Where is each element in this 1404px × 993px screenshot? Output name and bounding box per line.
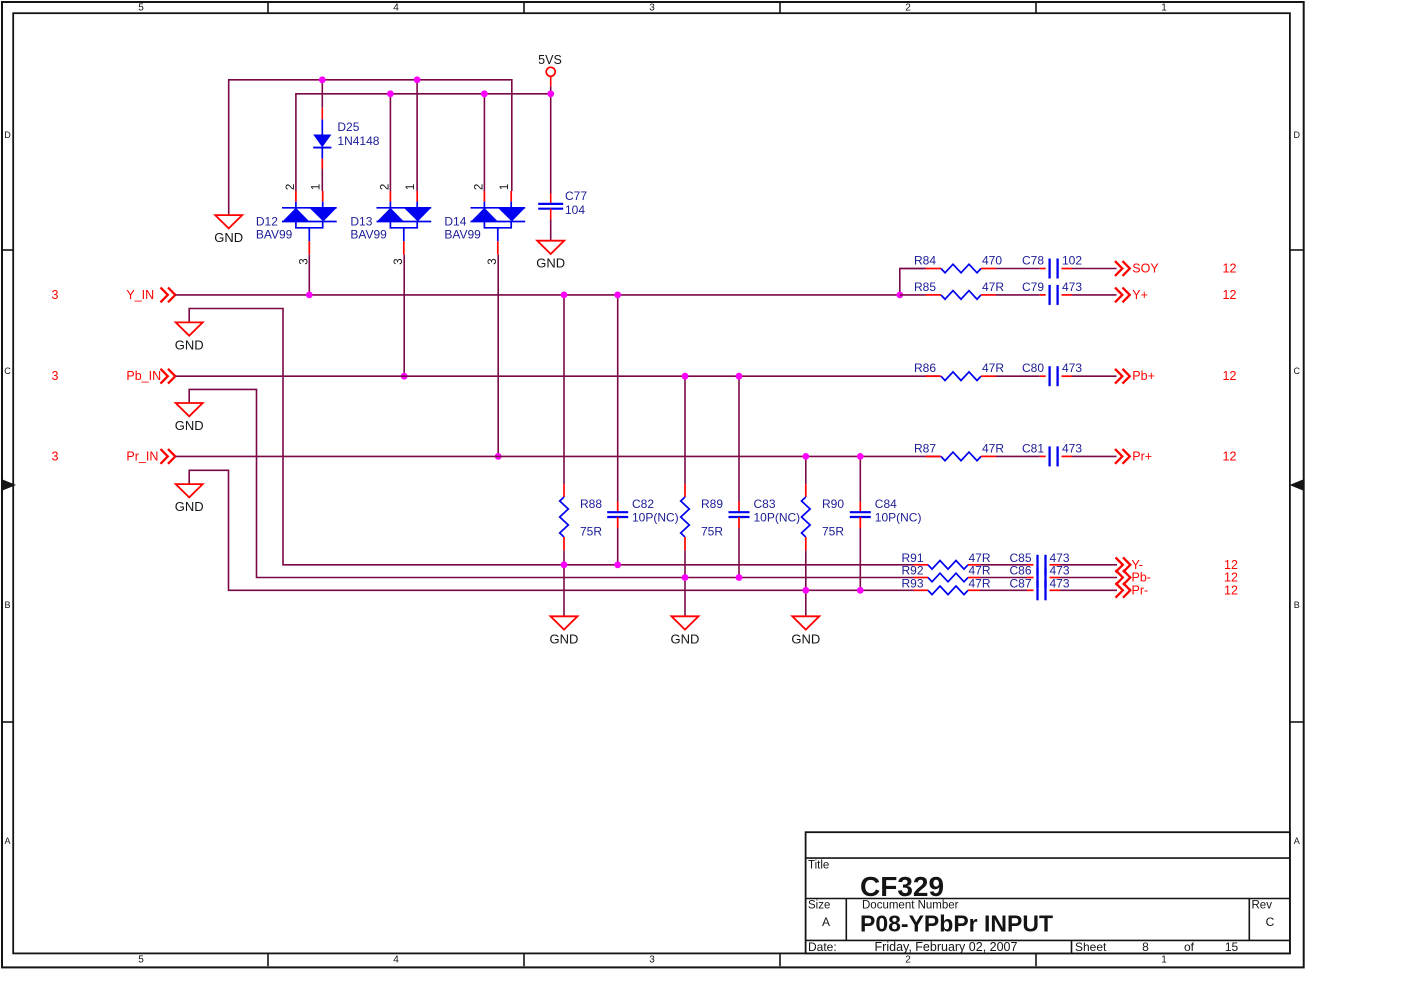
svg-text:Pr_IN: Pr_IN [126,449,158,463]
svg-text:R85: R85 [914,280,936,294]
wire C80 to port Pb+ [1062,375,1117,377]
label R92 value [969,564,991,578]
ground GND1 top-left [214,215,243,245]
wire Pb to C83 [738,376,740,512]
label D12 BAV99 [256,215,293,242]
svg-text:4: 4 [393,955,399,966]
svg-text:75R: 75R [701,525,723,539]
wire net Y [176,294,900,296]
wire Pr- row lead-in [914,589,929,591]
label R87 value [982,441,1004,455]
wire Y- row lead-in [914,564,929,566]
label C78 value [1062,254,1082,268]
resistor R88 75R [560,497,569,537]
ground GND6 [550,616,579,646]
resistor R84 470 [941,264,981,273]
label R92 [902,564,924,578]
svg-text:BAV99: BAV99 [256,227,293,241]
svg-text:5VS: 5VS [538,53,562,67]
svg-text:3: 3 [52,449,59,463]
junction Y- / C82 [614,561,621,568]
label R84 [914,254,936,268]
svg-text:R86: R86 [914,361,936,375]
capacitor C81 473 [1050,446,1058,466]
resistor R87 47R [941,452,981,461]
svg-text:C84: C84 [875,497,897,511]
junction GND rail / D25 [319,76,326,83]
wire C87 to port Pr- [1050,589,1118,591]
capacitor C78 102 [1050,259,1058,279]
title block [806,832,1290,954]
power symbol 5VS [538,53,562,86]
svg-text:4: 4 [393,3,399,14]
wire C77 to ground [550,220,552,241]
junction Y / D12 pin3 [306,292,313,299]
label R85 [914,280,936,294]
svg-text:3: 3 [649,3,655,14]
label R87 [914,441,936,455]
port Pr+ [1115,449,1152,464]
capacitor C82 10P [607,512,628,517]
port SOY [1115,261,1159,276]
capacitor C83 10P [729,512,750,517]
xref 12 for Y+ [1223,288,1237,302]
wire C81 to port Pr+ [1062,455,1117,457]
svg-text:47R: 47R [982,280,1004,294]
wire D25 top drop [321,80,323,120]
xref 12 for Y- [1224,558,1238,572]
svg-text:47R: 47R [982,361,1004,375]
svg-text:Pr+: Pr+ [1132,449,1152,463]
svg-text:473: 473 [1062,361,1082,375]
svg-text:Date:: Date: [808,940,837,954]
wire D25 to D12 pin1 [321,169,323,191]
svg-text:CF329: CF329 [860,871,944,902]
xref 3 for Y_IN [52,288,59,302]
junction 5VS rail / D13 pin2 [387,90,394,97]
xref 12 for Pr- [1224,583,1238,597]
label R93 value [969,577,991,591]
label R84 value [982,254,1002,268]
svg-text:2: 2 [285,184,297,190]
svg-text:3: 3 [649,955,655,966]
svg-text:C: C [1266,915,1275,929]
label C82 10P(NC) [632,497,679,525]
svg-text:R93: R93 [902,577,924,591]
port Y- [1116,557,1143,572]
capacitor C77 [538,194,563,220]
ground GND3 under Y_IN [175,322,204,352]
svg-text:10P(NC): 10P(NC) [754,511,801,525]
port Pb+ [1115,369,1155,384]
wire C79 to port Y+ [1062,294,1117,296]
label R93 [902,577,924,591]
svg-text:47R: 47R [982,441,1004,455]
svg-text:Pb_IN: Pb_IN [126,369,161,383]
label C77 104 [565,189,587,217]
wire Pb to R89 [684,376,686,497]
label C79 value [1062,280,1082,294]
svg-text:C79: C79 [1022,280,1044,294]
svg-text:47R: 47R [969,577,991,591]
label D25 1N4148 [337,120,379,148]
svg-text:12: 12 [1224,583,1238,597]
label D13 BAV99 [350,215,387,242]
label C85 [1010,551,1032,565]
label R91 value [969,551,991,565]
wire C78 to port SOY [1062,268,1117,270]
junction GND rail / D13 pin1 [414,76,421,83]
svg-text:GND: GND [550,631,579,646]
svg-text:1: 1 [405,184,417,190]
ground GND4 under Pb_IN [175,403,204,433]
wire 5VS rail [296,94,551,191]
label R86 value [982,361,1004,375]
dual diode D13 BAV99 [377,191,432,255]
svg-text:Y_IN: Y_IN [126,288,154,302]
svg-text:10P(NC): 10P(NC) [875,511,922,525]
wire Pb+ row lead [926,375,942,377]
ground GND8 [791,616,820,646]
xref 12 for Pb- [1224,571,1238,585]
junction Pr- / R90 [802,587,809,594]
svg-text:3: 3 [393,258,405,264]
svg-text:470: 470 [982,254,1002,268]
svg-text:1: 1 [1161,3,1167,14]
resistor R91 47R [928,561,968,570]
svg-text:GND: GND [175,418,204,433]
wire D12 pin3 to Y [308,255,310,295]
resistor R90 75R [802,497,811,537]
port Y_IN [126,288,175,303]
junction Pb / R89 [682,373,689,380]
svg-text:12: 12 [1223,369,1237,383]
dual diode D14 BAV99 [471,191,526,255]
port Pb_IN [126,369,175,384]
svg-text:SOY: SOY [1132,262,1159,276]
svg-text:C77: C77 [565,189,587,203]
wire R87 to C81 [981,455,1046,457]
svg-text:A: A [822,915,830,929]
svg-text:Title: Title [808,860,829,872]
svg-text:473: 473 [1062,280,1082,294]
junction Pr- / C84 [857,587,864,594]
label R88 75R [580,497,602,539]
wire R92 to C86 [968,577,1034,579]
port Pr_IN [126,449,175,464]
svg-text:75R: 75R [822,525,844,539]
wire Y to C82 [617,295,619,512]
wire Pr- return from ground [189,470,913,590]
svg-text:A: A [1294,836,1300,846]
svg-text:of: of [1184,940,1195,954]
wire Pb- row lead-in [914,577,929,579]
junction Pb / D13 pin3 [401,373,408,380]
junction Pr / C84 [857,453,864,460]
svg-text:C: C [1294,366,1301,376]
dual diode D12 BAV99 [282,191,337,255]
svg-text:473: 473 [1062,441,1082,455]
svg-text:D: D [1294,130,1301,140]
port Pr- [1116,583,1149,598]
svg-text:BAV99: BAV99 [444,227,481,241]
svg-text:GND: GND [175,337,204,352]
capacitor C85 473 [1038,555,1046,575]
label C87 value [1050,577,1070,591]
svg-text:2: 2 [905,955,911,966]
svg-text:B: B [4,600,10,610]
label C86 [1010,564,1032,578]
label C86 value [1050,564,1070,578]
label R91 [902,551,924,565]
junction Pr / R90 [802,453,809,460]
xref 3 for Pr_IN [52,449,59,463]
svg-text:3: 3 [487,258,499,264]
wire R90 to Pr- row [805,537,807,616]
svg-text:GND: GND [536,256,565,271]
svg-text:R89: R89 [701,497,723,511]
wire Y to R88 [563,295,565,497]
wire D13 pin2 drop [389,94,391,191]
wire R86 to C80 [981,375,1046,377]
svg-text:C78: C78 [1022,254,1044,268]
svg-text:10P(NC): 10P(NC) [632,511,679,525]
wire Pr to R90 [805,456,807,497]
svg-text:75R: 75R [580,525,602,539]
svg-text:2: 2 [379,184,391,190]
wire Pb- return from ground [189,389,913,577]
diode D25 [313,119,331,169]
capacitor C84 10P [850,512,871,517]
wire C84 to Pr- row [859,517,861,590]
wire GND clamp rail [229,80,512,215]
wire D14 pin2 drop [483,94,485,191]
label R86 [914,361,936,375]
wire D13 pin3 to Pb [403,255,405,377]
svg-text:P08-YPbPr INPUT: P08-YPbPr INPUT [860,911,1053,937]
svg-text:D: D [4,130,11,140]
svg-text:C81: C81 [1022,441,1044,455]
wire Y to R84 branch [900,269,926,295]
junction 5VS rail / stem [547,90,554,97]
resistor R93 47R [928,586,968,595]
wire R88 to Y- row [563,537,565,616]
wire Y+ row lead [900,294,941,296]
svg-text:Rev: Rev [1252,900,1273,912]
svg-text:1N4148: 1N4148 [337,134,379,148]
junction 5VS rail / D14 pin2 [481,90,488,97]
wire Pr to C84 [859,456,861,512]
label C81 value [1062,441,1082,455]
svg-text:104: 104 [565,203,585,217]
svg-text:5: 5 [138,3,144,14]
wire R93 to C87 [968,589,1034,591]
svg-text:3: 3 [52,288,59,302]
junction Pb / C83 [736,373,743,380]
svg-text:473: 473 [1050,577,1070,591]
svg-text:Pb+: Pb+ [1132,369,1155,383]
xref 12 for SOY [1223,262,1237,276]
svg-text:15: 15 [1225,940,1239,954]
svg-text:12: 12 [1223,288,1237,302]
svg-text:Sheet: Sheet [1075,940,1107,954]
label C80 [1022,361,1044,375]
pin numbers D13 [379,184,416,265]
junction Y / R88 [561,292,568,299]
svg-text:Size: Size [808,900,830,912]
svg-text:D25: D25 [337,120,359,134]
wire R89 to Pb- row [684,537,686,616]
wire net Pb [176,375,940,377]
wire 5VS stem [550,86,552,193]
svg-text:8: 8 [1142,940,1149,954]
svg-text:1: 1 [310,184,322,190]
label R90 75R [822,497,844,539]
svg-text:C80: C80 [1022,361,1044,375]
svg-text:Pr-: Pr- [1132,583,1149,597]
junction Y- / R88 [561,561,568,568]
pin numbers D14 [473,184,510,265]
svg-text:102: 102 [1062,254,1082,268]
ground GND2 under C77 [536,241,565,271]
xref 3 for Pb_IN [52,369,59,383]
label D14 BAV99 [444,215,481,242]
junction Pb- / C83 [736,574,743,581]
label C87 [1010,577,1032,591]
xref 12 for Pr+ [1223,449,1237,463]
svg-text:3: 3 [52,369,59,383]
svg-text:Friday, February 02, 2007: Friday, February 02, 2007 [875,940,1018,954]
label C83 10P(NC) [754,497,801,525]
svg-text:A: A [4,836,10,846]
wire C82 to Y- row [617,517,619,565]
svg-text:C82: C82 [632,497,654,511]
resistor R89 75R [681,497,690,537]
svg-text:1: 1 [499,184,511,190]
svg-text:2: 2 [905,3,911,14]
wire R85 to C79 [981,294,1046,296]
wire D13 pin1 drop [416,80,418,191]
wire C86 to port Pb- [1050,577,1118,579]
wire Y- return from ground [189,309,913,565]
svg-text:2: 2 [473,184,485,190]
wire net Pr [176,455,940,457]
wire SOY row lead [900,268,941,270]
wire R91 to C85 [968,564,1034,566]
label C78 [1022,254,1044,268]
resistor R92 47R [928,573,968,582]
svg-text:GND: GND [671,631,700,646]
label R85 value [982,280,1004,294]
svg-text:C87: C87 [1010,577,1032,591]
label C84 10P(NC) [875,497,922,525]
port Pb- [1116,570,1151,585]
svg-text:R88: R88 [580,497,602,511]
junction Pb- / R89 [682,574,689,581]
svg-text:C83: C83 [754,497,776,511]
wire D14 pin3 to Pr [497,255,499,457]
svg-text:R90: R90 [822,497,844,511]
xref 12 for Pb+ [1223,369,1237,383]
label C81 [1022,441,1044,455]
svg-text:GND: GND [175,499,204,514]
capacitor C80 473 [1050,366,1058,386]
label R89 75R [701,497,723,539]
capacitor C86 473 [1038,568,1046,588]
capacitor C87 473 [1038,580,1046,600]
svg-text:5: 5 [138,955,144,966]
svg-text:C: C [4,366,11,376]
port Y+ [1115,288,1148,303]
svg-text:R84: R84 [914,254,936,268]
pin numbers D12 [285,184,322,265]
label C85 value [1050,551,1070,565]
wire R84 to C78 [981,268,1046,270]
ground GND5 under Pr_IN [175,484,204,514]
svg-text:BAV99: BAV99 [350,227,387,241]
svg-text:R87: R87 [914,441,936,455]
junction Y / R84 branch [896,292,903,299]
svg-text:GND: GND [791,631,820,646]
svg-text:12: 12 [1223,262,1237,276]
ground GND7 [671,616,700,646]
wire C83 to Pb- row [738,517,740,578]
junction Pr / D14 pin3 [495,453,502,460]
svg-text:Y+: Y+ [1132,288,1148,302]
wire Pr+ row lead [926,455,942,457]
junction Y / C82 [614,292,621,299]
svg-text:B: B [1294,600,1300,610]
resistor R85 47R [941,291,981,300]
svg-text:12: 12 [1223,449,1237,463]
label C80 value [1062,361,1082,375]
capacitor C79 473 [1050,285,1058,305]
svg-text:GND: GND [214,230,243,245]
resistor R86 47R [941,372,981,381]
wire C85 to port Y- [1050,564,1118,566]
label C79 [1022,280,1044,294]
svg-text:1: 1 [1161,955,1167,966]
